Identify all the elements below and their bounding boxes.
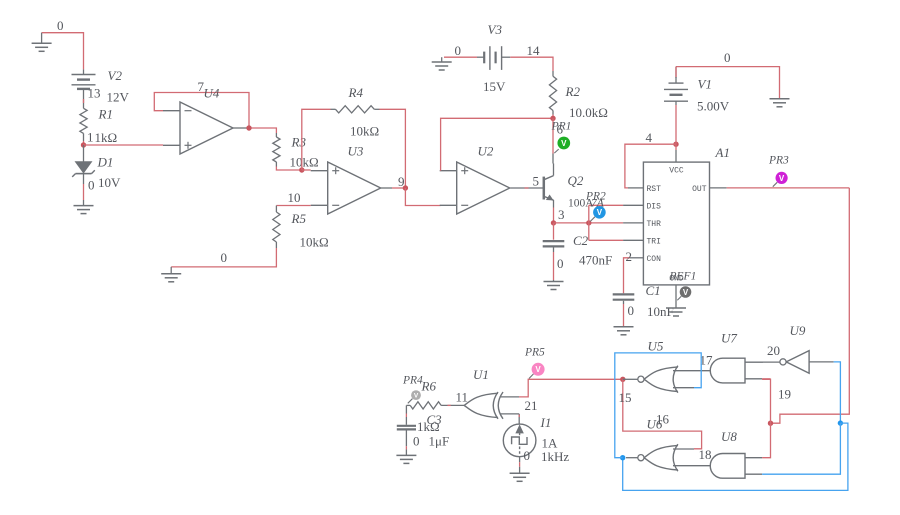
svg-text:20: 20 (767, 343, 780, 358)
svg-text:0: 0 (557, 256, 564, 271)
svg-text:0: 0 (57, 18, 64, 33)
svg-text:A1: A1 (715, 145, 730, 160)
svg-text:0: 0 (413, 434, 420, 449)
svg-text:10.0kΩ: 10.0kΩ (569, 105, 608, 120)
svg-text:R6: R6 (421, 379, 437, 394)
svg-text:5: 5 (533, 174, 540, 189)
svg-text:U9: U9 (790, 323, 806, 338)
svg-text:0: 0 (455, 43, 462, 58)
svg-text:C1: C1 (646, 283, 661, 298)
svg-text:U2: U2 (478, 144, 494, 159)
svg-text:R3: R3 (291, 135, 307, 150)
svg-text:DIS: DIS (647, 202, 662, 211)
svg-text:1μF: 1μF (429, 434, 450, 449)
svg-text:U8: U8 (721, 429, 737, 444)
svg-text:OUT: OUT (692, 185, 707, 194)
svg-text:V3: V3 (488, 22, 503, 37)
svg-text:U4: U4 (204, 86, 220, 101)
svg-text:PR4: PR4 (402, 375, 423, 387)
svg-text:U5: U5 (648, 339, 664, 354)
svg-text:Q2: Q2 (568, 173, 584, 188)
svg-text:R5: R5 (291, 211, 307, 226)
svg-text:10kΩ: 10kΩ (300, 235, 329, 250)
svg-text:PR5: PR5 (524, 347, 545, 359)
svg-text:12V: 12V (107, 90, 130, 105)
svg-text:V: V (535, 365, 541, 374)
svg-text:13: 13 (88, 86, 101, 101)
svg-text:V1: V1 (698, 77, 712, 92)
svg-text:V: V (561, 139, 567, 148)
svg-text:V: V (414, 392, 419, 399)
svg-text:470nF: 470nF (579, 253, 612, 268)
svg-text:4: 4 (646, 130, 653, 145)
svg-text:U6: U6 (647, 417, 663, 432)
svg-text:10kΩ: 10kΩ (290, 155, 319, 170)
svg-text:RST: RST (647, 185, 662, 194)
svg-text:19: 19 (778, 387, 791, 402)
svg-text:VCC: VCC (669, 167, 684, 176)
svg-text:I1: I1 (540, 415, 552, 430)
svg-text:11: 11 (456, 390, 469, 405)
svg-text:15: 15 (619, 390, 632, 405)
svg-text:1kHz: 1kHz (541, 449, 569, 464)
svg-text:V: V (779, 174, 785, 183)
svg-text:U1: U1 (473, 367, 489, 382)
svg-text:21: 21 (525, 398, 538, 413)
svg-text:0: 0 (628, 303, 635, 318)
svg-text:0: 0 (221, 250, 228, 265)
svg-text:V: V (597, 208, 603, 217)
svg-text:TRI: TRI (647, 237, 661, 246)
svg-text:THR: THR (647, 220, 662, 229)
svg-text:0: 0 (524, 448, 531, 463)
svg-text:0: 0 (724, 50, 731, 65)
svg-text:9: 9 (398, 174, 405, 189)
svg-text:1: 1 (87, 130, 94, 145)
svg-text:REF1: REF1 (669, 271, 697, 283)
svg-text:1kΩ: 1kΩ (417, 419, 440, 434)
svg-text:C2: C2 (573, 233, 589, 248)
svg-text:D1: D1 (97, 155, 114, 170)
svg-text:14: 14 (527, 43, 541, 58)
svg-text:U3: U3 (348, 144, 364, 159)
svg-text:15V: 15V (483, 79, 506, 94)
svg-text:R4: R4 (348, 85, 364, 100)
svg-text:1kΩ: 1kΩ (95, 130, 118, 145)
svg-text:2: 2 (626, 249, 633, 264)
svg-text:V: V (683, 288, 689, 297)
svg-text:10V: 10V (98, 175, 121, 190)
svg-text:6: 6 (557, 122, 564, 137)
svg-text:V2: V2 (108, 68, 123, 83)
svg-text:U7: U7 (721, 331, 737, 346)
svg-text:PR3: PR3 (768, 155, 789, 167)
svg-text:R1: R1 (98, 107, 113, 122)
svg-text:R2: R2 (565, 84, 581, 99)
svg-text:18: 18 (699, 447, 712, 462)
svg-text:CON: CON (647, 255, 662, 264)
svg-text:3: 3 (558, 207, 565, 222)
svg-text:10kΩ: 10kΩ (350, 124, 379, 139)
svg-text:10: 10 (288, 190, 301, 205)
svg-text:5.00V: 5.00V (697, 99, 730, 114)
svg-text:0: 0 (88, 178, 95, 193)
